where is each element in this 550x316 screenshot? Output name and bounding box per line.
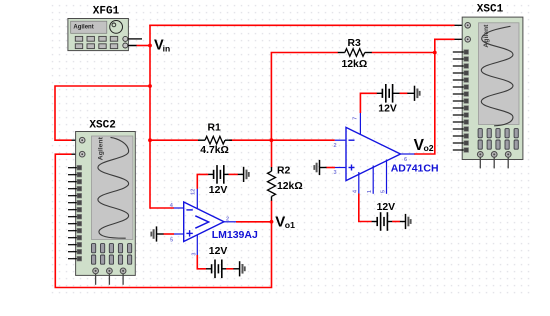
svg-text:XFG1: XFG1: [93, 5, 120, 17]
svg-text:in: in: [163, 43, 171, 53]
svg-text:LM139AJ: LM139AJ: [212, 229, 258, 241]
svg-text:12: 12: [191, 189, 197, 195]
wire: R1 right to node A: [229, 139, 271, 141]
svg-text:V: V: [275, 214, 285, 231]
wire: battery V2 to ground: [226, 268, 239, 270]
XSC1 input terminal ch2: [465, 37, 471, 43]
svg-text:o2: o2: [424, 143, 434, 153]
resistor R1 4.7kΩ: [198, 123, 232, 157]
svg-text:1: 1: [367, 190, 373, 193]
svg-text:XSC1: XSC1: [477, 4, 504, 16]
svg-text:3: 3: [334, 170, 337, 176]
resistor R3 12kΩ: [338, 38, 372, 70]
node label Vo1: [275, 214, 295, 231]
svg-text:12V: 12V: [377, 202, 396, 213]
svg-text:12V: 12V: [209, 246, 228, 257]
battery V4 12V (AD741 negative supply): [372, 202, 396, 231]
wire: battery V4 to ground: [392, 221, 405, 223]
node label Vin: [154, 38, 170, 54]
svg-text:6: 6: [404, 157, 407, 163]
junction node XSC2-ch1 tap: [148, 84, 152, 88]
svg-text:XSC2: XSC2: [89, 120, 115, 132]
wire: Vo1 node to XSC2 channel 2: [55, 154, 271, 287]
svg-text:12V: 12V: [378, 103, 397, 114]
battery V2 12V (LM139 negative supply): [206, 246, 227, 278]
wire: Vin bus to LM139 inverting input: [150, 207, 174, 209]
wire: battery V3 to ground: [400, 92, 415, 94]
wire: AD741 V+ supply riser: [360, 93, 377, 113]
svg-text:5: 5: [380, 190, 386, 193]
ground (V1): [244, 167, 249, 182]
XSC1 bottom terminals: [477, 152, 511, 169]
XSC2 input terminal ch2: [79, 151, 85, 157]
svg-text:2: 2: [226, 217, 229, 223]
wire: R2 top connection: [271, 140, 273, 167]
ground (AD741 non-inverting input): [314, 160, 335, 175]
svg-text:12V: 12V: [209, 185, 228, 196]
oscilloscope XSC2: [68, 120, 135, 285]
svg-text:2: 2: [334, 143, 337, 149]
ground (V3): [415, 86, 420, 101]
wire: node A up to R3 left: [271, 53, 338, 141]
ground (V4): [406, 214, 411, 229]
wire: XFG1 output to Vin node: [129, 45, 150, 47]
junction node Vo1: [270, 220, 274, 224]
ground (V2): [240, 261, 245, 276]
XSC1 left pin row: [453, 52, 464, 150]
wire: top run to XSC1 channel 1: [149, 24, 464, 26]
wire: AD741 V- supply drop: [359, 194, 372, 222]
svg-text:12kΩ: 12kΩ: [277, 181, 303, 192]
svg-text:12kΩ: 12kΩ: [342, 59, 368, 70]
wire: R3 right to feedback node B: [372, 52, 435, 54]
junction node R1 tap: [148, 138, 152, 142]
wire: battery V1 to ground: [229, 173, 244, 175]
oscilloscope XSC1: [453, 4, 523, 169]
XSC1 input terminal ch1: [465, 23, 471, 29]
XSC2 input terminal ch1: [79, 137, 85, 143]
svg-text:7: 7: [353, 117, 359, 120]
wire: R1 left lead wire: [150, 139, 198, 141]
svg-text:Agilent: Agilent: [73, 24, 93, 30]
XSC2 bottom terminals: [93, 268, 126, 285]
junction node Vin: [148, 44, 152, 48]
svg-text:R3: R3: [348, 38, 362, 49]
op-amp U2 AD741CH: [334, 113, 439, 194]
svg-text:o1: o1: [285, 220, 295, 230]
wire: LM139 output to Vo1 node: [236, 221, 272, 223]
battery V3 12V (AD741 positive supply): [377, 84, 400, 114]
ground (LM139 non-inverting input): [151, 226, 174, 241]
wire: node A to AD741 inverting input: [271, 139, 334, 141]
wire: node B up to XSC1 channel 2: [435, 39, 465, 52]
battery V1 12V (LM139 positive supply): [208, 165, 229, 196]
wire: AD741 output up to node B: [414, 53, 435, 155]
function generator XFG1: [68, 5, 142, 50]
node label Vo2: [414, 137, 434, 154]
wire: branch to XSC2 channel 1: [55, 86, 150, 140]
XSC2 left pin row: [68, 168, 78, 259]
svg-text:R2: R2: [277, 166, 291, 177]
wire: R2 bottom to Vo1 node: [271, 201, 273, 222]
resistor R2 12kΩ: [268, 166, 303, 201]
svg-text:AD741CH: AD741CH: [391, 162, 439, 174]
svg-text:R1: R1: [208, 123, 222, 134]
svg-text:5: 5: [170, 238, 173, 244]
comparator U1 LM139AJ: [170, 189, 258, 256]
junction node B (R3/output): [433, 51, 437, 55]
svg-text:Agilent: Agilent: [98, 136, 105, 160]
svg-text:4.7kΩ: 4.7kΩ: [200, 145, 229, 156]
junction node A (R1/R2/R3/U2-): [270, 138, 274, 142]
wire: LM139 V- supply drop: [197, 255, 206, 269]
wire: main vertical Vin bus: [149, 25, 151, 208]
wire: LM139 V+ supply riser: [197, 174, 208, 188]
